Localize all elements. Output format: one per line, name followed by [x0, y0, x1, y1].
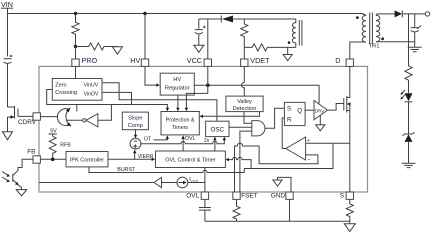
svg-text:RFB: RFB: [60, 143, 71, 149]
ground below aux winding: [287, 47, 289, 54]
wire summing node to OSC (ramp): [141, 139, 224, 144]
wire Zero Crossing left output line: [47, 90, 168, 110]
wire OSC to AND gate: [229, 126, 252, 128]
resistor RFB: [49, 136, 56, 159]
ground below Q1: [3, 132, 13, 140]
svg-text:Timers: Timers: [172, 125, 188, 131]
wire inverter bubble to OR gate: [67, 119, 83, 121]
junction dot VCC node: [206, 83, 210, 87]
svg-text:OT: OT: [144, 136, 152, 142]
wire GND pin to bus: [289, 199, 291, 221]
wire HV pin to HV Regulator: [145, 66, 157, 85]
wire VCC pin down: [207, 66, 209, 85]
capacitor C1 on VIN rail: [4, 59, 12, 107]
label VIERR + wire into summing node: [134, 152, 136, 160]
wire latch Q to DRV: [305, 109, 314, 111]
wire Valley Detection to Protection & Timers: [201, 112, 259, 117]
wire IPK Controller to OVL Control (VIERR line): [108, 158, 153, 160]
wire branch to inverter input: [98, 105, 112, 121]
resistor R3 (VDET upper): [241, 19, 248, 59]
svg-text:Zero: Zero: [55, 83, 66, 89]
TR1 core: [370, 13, 373, 45]
svg-text:S: S: [340, 193, 344, 200]
wire VIN top bus: [8, 14, 367, 16]
wire OVL box to OVL pin: [204, 168, 206, 193]
pin GND: [286, 192, 293, 199]
current source I_OVL: [177, 177, 188, 188]
wire comparator minus to ramp (FSET): [235, 143, 318, 192]
svg-text:HV: HV: [173, 77, 181, 83]
resistor R7 (current sense): [346, 199, 353, 221]
wire VinOV down to common line: [102, 92, 132, 104]
pin OVL: [201, 192, 208, 199]
wire OT into Protection & Timers: [154, 137, 168, 140]
transistor Q2 (power MOSFET): [344, 96, 350, 113]
block Slope Comp: [122, 112, 148, 130]
output terminal circle: [425, 12, 429, 16]
junction dot at HV branch: [143, 12, 146, 15]
aux core: [299, 20, 302, 46]
pin S: [346, 192, 353, 199]
svg-text:D: D: [335, 56, 340, 65]
wire secondary top to diode: [376, 14, 395, 15]
wire HV Regulator bottom into Protection & Timers: [177, 95, 179, 109]
svg-text:GND: GND: [271, 193, 286, 200]
pin FSET: [233, 192, 240, 199]
latch U4 (SR): [284, 102, 305, 125]
block Valley Detection: [226, 96, 263, 112]
wire comparator plus input to source: [306, 142, 350, 144]
ground bus: [205, 221, 350, 223]
inverter U2: [86, 114, 98, 127]
wire OVL Control to OSC (2x): [214, 139, 216, 151]
diode D1 (aux to VCC): [222, 16, 233, 23]
resistor R6 (FSET): [233, 199, 240, 221]
wire FB pin to IPK Controller: [40, 158, 66, 160]
svg-text:Valley: Valley: [237, 99, 252, 105]
resistor R5 (feedback divider): [405, 14, 412, 93]
ground triangle at bus: [344, 224, 355, 232]
svg-text:VinUV: VinUV: [84, 83, 99, 89]
wire OVL pin to external cap: [204, 199, 206, 207]
wire OR gate to CDRV pin: [40, 116, 57, 118]
wire branch to OR gate top input: [76, 105, 78, 112]
TR1 primary winding: [350, 14, 366, 60]
svg-text:DRV: DRV: [315, 108, 326, 113]
AND gate U3: [252, 121, 265, 136]
wire VCC top rail: [199, 19, 296, 59]
wire OVL Control to Protection & Timers: [182, 137, 184, 151]
wire VDET pin into Valley Detection (hop over supply line): [242, 66, 245, 96]
pin CDRV: [33, 113, 40, 120]
block HV Regulator: [160, 73, 194, 95]
internal ground symbol near GND pin: [278, 177, 292, 192]
transistor Q3 (optocoupler phototransistor): [13, 174, 18, 185]
svg-text:R: R: [287, 116, 292, 123]
svg-text:HV: HV: [130, 56, 140, 65]
svg-text:FSET: FSET: [241, 193, 257, 200]
comparator U6 (current sense): [286, 137, 306, 160]
wire PRO node to PRO pin: [75, 47, 77, 60]
wire Slope Comp to summing node: [135, 130, 137, 137]
resistor R2 (PRO node to ground): [76, 43, 118, 50]
svg-text:2x: 2x: [204, 138, 210, 144]
pin FB: [33, 156, 40, 163]
wire OVL Control right input from sense line: [228, 157, 252, 168]
ground below C2: [194, 45, 204, 52]
junction dot at R1 top: [74, 12, 77, 15]
LED D3 (optocoupler): [405, 93, 413, 101]
wire AND gate to latch S: [265, 108, 285, 128]
diode D2 (output rectifier): [395, 10, 402, 17]
svg-text:S: S: [287, 106, 291, 113]
driver DRV U5: [314, 101, 327, 120]
svg-text:Comp: Comp: [128, 123, 143, 129]
block OVL Control & Timer: [156, 151, 226, 168]
pin VCC: [204, 59, 211, 66]
svg-text:Protection &: Protection &: [166, 118, 195, 124]
block IPK Controller: [66, 152, 108, 167]
wire VinUV to OSC top: [102, 83, 217, 121]
svg-text:VinOV: VinOV: [84, 92, 99, 98]
zener D4: [403, 132, 415, 135]
pin VDET: [241, 59, 248, 66]
wire VCC branch into Protection & Timers: [186, 85, 207, 109]
wire FB pin to optocoupler: [13, 159, 33, 175]
wire HV branch to HV pin: [144, 14, 146, 60]
svg-text:OVL Control & Timer: OVL Control & Timer: [165, 158, 216, 164]
wire secondary bottom: [376, 41, 415, 43]
svg-text:VIN: VIN: [1, 0, 13, 9]
earth ground E2 (zener): [402, 163, 416, 167]
block Zero Crossing: [52, 79, 102, 101]
svg-text:OVL: OVL: [185, 136, 196, 142]
svg-text:Regulator: Regulator: [165, 86, 190, 92]
block Protection & Timers: [161, 112, 199, 135]
wire PRO pin into Zero Crossing: [75, 66, 77, 78]
OR gate crescent (zero-crossing gate): [57, 109, 69, 126]
wire diode to output terminal: [402, 13, 425, 15]
junction dot at PRO node: [74, 45, 77, 48]
wire LED to zener: [408, 102, 410, 134]
capacitor C4 (OVL): [199, 208, 211, 222]
ground below Q3: [16, 190, 27, 196]
wire VIN rail down: [7, 8, 9, 56]
resistor R1 (VIN to PRO): [72, 14, 79, 47]
summing node U7: [130, 138, 141, 149]
buffer U8 (burst comparator): [39, 182, 154, 184]
svg-text:VDET: VDET: [250, 56, 270, 65]
ground below DRV: [319, 115, 321, 124]
TR1 secondary winding: [376, 15, 380, 42]
svg-text:IPK Controller: IPK Controller: [70, 158, 104, 164]
svg-text:FB: FB: [27, 149, 35, 156]
wire Valley Detection to AND gate: [244, 112, 252, 124]
svg-text:Crossing: Crossing: [55, 90, 77, 96]
IC boundary: [39, 66, 368, 192]
svg-text:Q: Q: [297, 108, 302, 115]
wire DRV to MOSFET gate: [327, 104, 343, 111]
light arrows into Q3: [2, 172, 8, 181]
ground for R2: [112, 47, 122, 54]
svg-text:OSC: OSC: [211, 127, 225, 134]
capacitor C3 (output): [411, 14, 419, 47]
svg-text:OVL: OVL: [186, 193, 199, 200]
capacitor C2 (VCC): [195, 19, 203, 45]
block OSC: [206, 121, 229, 136]
svg-text:PRO: PRO: [82, 56, 98, 65]
resistor R4 (VDET to aux): [244, 44, 295, 51]
svg-text:Slope: Slope: [128, 116, 142, 122]
pin PRO: [72, 59, 79, 66]
aux winding: [292, 19, 295, 47]
pin D: [346, 59, 353, 66]
pin HV: [141, 59, 148, 66]
wire HV Regulator output to DRV supply: [194, 85, 319, 103]
transistor Q1 (external MOSFET at CDRV): [8, 106, 34, 132]
earth ground E1 (output cap): [408, 47, 422, 51]
wire FSET to AND gate input: [240, 131, 252, 192]
svg-text:Detection: Detection: [233, 106, 257, 112]
wire comparator output to latch R: [282, 118, 286, 149]
wire D pin to MOSFET and source to S pin: [349, 66, 351, 192]
svg-text:OVL: OVL: [191, 178, 200, 183]
svg-text:VCC: VCC: [187, 56, 202, 65]
